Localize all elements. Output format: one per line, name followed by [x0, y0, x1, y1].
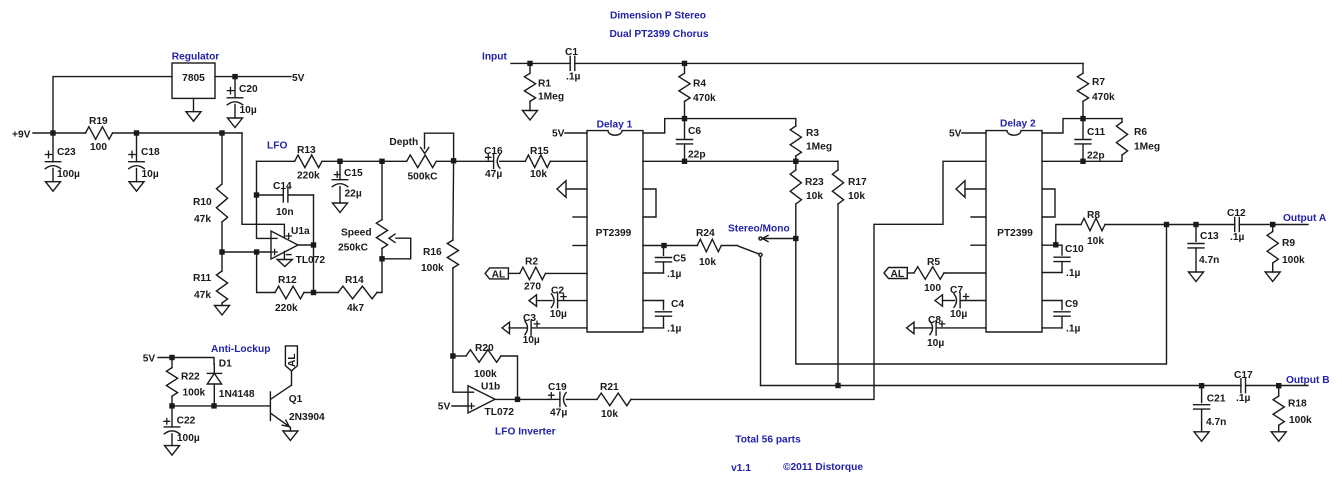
R14 label [345, 275, 364, 286]
R3 value 1Meg [806, 142, 832, 153]
svg-text:TL072: TL072 [296, 255, 326, 266]
node pin14/R8 node (junction) [1053, 242, 1058, 247]
svg-text:10k: 10k [601, 409, 618, 420]
svg-text:R6: R6 [1134, 127, 1147, 138]
svg-text:R19: R19 [89, 116, 108, 127]
wire AL to R5 [907, 272, 914, 274]
R12 value 220k [275, 303, 298, 314]
wire R3 bottom lead [795, 156, 797, 161]
C17 label [1234, 370, 1253, 381]
IC Delay2 PT2399 body [986, 131, 1042, 332]
svg-text:270: 270 [524, 282, 541, 293]
LFO arrow (C3) [502, 322, 510, 334]
ground regulator ground [186, 98, 201, 121]
wire R7 top lead [1082, 63, 1084, 73]
svg-text:470k: 470k [693, 93, 716, 104]
wire Speed bottom lead [381, 248, 383, 258]
svg-text:10µ: 10µ [240, 105, 257, 116]
C21 value 4.7n [1206, 417, 1226, 428]
node +9V/C23 (junction) [50, 130, 55, 135]
Delay2 part PT2399 [997, 228, 1033, 239]
ground R18 ground [1271, 432, 1286, 442]
LFO Inverter section label [495, 426, 556, 437]
resistor R17 (10k) [832, 170, 843, 204]
svg-text:100µ: 100µ [57, 169, 80, 180]
resistor R3 (1Meg) [790, 126, 801, 156]
node R23/switch node (junction) [793, 236, 798, 241]
node C21 node (junction) [1199, 383, 1204, 388]
node R22/C22 node (junction) [169, 403, 174, 408]
wire Delay2 pin16 to fb node [1042, 119, 1083, 133]
wire R15 out to Delay1 pin2 [550, 160, 587, 162]
Anti-Lockup section label [211, 344, 270, 355]
svg-text:.1µ: .1µ [1236, 393, 1250, 404]
R9 value 100k [1282, 255, 1305, 266]
svg-text:C13: C13 [1200, 231, 1219, 242]
C8 value 10u [927, 338, 944, 349]
wire U1a output [298, 244, 314, 246]
svg-text:10k: 10k [1087, 236, 1104, 247]
regulator U3 7805 [172, 63, 215, 98]
C21 label [1207, 393, 1226, 404]
wire 5V to Delay2 pin1 [962, 132, 986, 134]
transistor Q1 (2N3904) [270, 385, 291, 431]
node R17/outputB bus (junction) [835, 383, 840, 388]
svg-text:C2: C2 [551, 286, 564, 297]
svg-text:10µ: 10µ [523, 335, 540, 346]
wire regulator output 5V [215, 76, 291, 78]
svg-text:C7: C7 [950, 285, 963, 296]
svg-text:C23: C23 [57, 147, 76, 158]
C7 value 10u [950, 309, 967, 320]
C4 label [671, 299, 684, 310]
R24 value 10k [699, 257, 716, 268]
wire R16 bottom lead / to U1b [453, 268, 468, 392]
wire 9V to U1a V+ [242, 133, 284, 237]
node 5V label (U1b) [438, 402, 451, 413]
C15 value 22u [345, 188, 362, 199]
svg-text:R18: R18 [1288, 399, 1307, 410]
C3 label [523, 313, 536, 324]
title Dimension P Stereo [610, 11, 706, 22]
R7 label [1092, 77, 1105, 88]
svg-text:R8: R8 [1087, 210, 1100, 221]
svg-text:1Meg: 1Meg [538, 92, 564, 103]
svg-text:R12: R12 [278, 275, 297, 286]
resistor R4 (470k) [679, 73, 690, 101]
C2 value 10u [550, 309, 567, 320]
LFO arrow (C7) [935, 295, 943, 307]
wire R7 bottom lead [1082, 101, 1084, 118]
capacitor C3 (10u) [509, 321, 587, 335]
C22 value 100u [177, 433, 200, 444]
wire output A stub [1273, 224, 1308, 226]
C18 value 10u [142, 169, 159, 180]
R13 value 220k [297, 171, 320, 182]
svg-text:1N4148: 1N4148 [219, 389, 255, 400]
wire Delay1 pin16 to C6 top [643, 119, 685, 133]
resistor R16 (100k) [447, 240, 458, 268]
svg-text:10µ: 10µ [550, 309, 567, 320]
resistor R23 (10k) [790, 170, 801, 204]
svg-text:Output B: Output B [1286, 375, 1330, 386]
wire input line right [575, 62, 1083, 64]
svg-text:.1µ: .1µ [1230, 232, 1244, 243]
wire mono bus (R23 to R8 node) [796, 225, 1167, 365]
C6 label [688, 126, 701, 137]
node R7/C11 node (junction) [1080, 116, 1085, 121]
svg-text:100k: 100k [421, 263, 444, 274]
svg-text:C1: C1 [565, 47, 578, 58]
svg-text:U1b: U1b [481, 382, 500, 393]
C5 value .1u [667, 269, 681, 280]
svg-text:Speed: Speed [341, 228, 372, 239]
svg-text:5V: 5V [143, 353, 156, 364]
Regulator section label [172, 52, 220, 63]
capacitor C9 (.1u) [1042, 301, 1070, 328]
svg-text:R22: R22 [181, 371, 200, 382]
wire base wire [172, 405, 270, 407]
node pin14/C5 node (junction) [661, 243, 666, 248]
svg-text:C15: C15 [344, 168, 363, 179]
svg-text:100k: 100k [183, 388, 206, 399]
capacitor C12 (.1u) [1196, 218, 1273, 232]
svg-text:C18: C18 [141, 147, 160, 158]
node 5V/C20 (junction) [232, 74, 237, 79]
R20 label [475, 343, 494, 354]
svg-text:U1a: U1a [291, 226, 310, 237]
svg-text:R16: R16 [423, 247, 442, 258]
R7 value 470k [1092, 92, 1115, 103]
svg-text:10µ: 10µ [142, 169, 159, 180]
svg-text:100k: 100k [1289, 415, 1312, 426]
svg-text:100µ: 100µ [177, 433, 200, 444]
C12 label [1227, 208, 1246, 219]
svg-text:10k: 10k [530, 169, 547, 180]
R22 value 100k [183, 388, 206, 399]
svg-text:22p: 22p [688, 150, 706, 161]
ground C15 ground [333, 203, 348, 213]
svg-text:10µ: 10µ [927, 338, 944, 349]
wire R16 top lead [452, 161, 455, 240]
resistor R22 (100k) [166, 368, 177, 397]
svg-text:4.7n: 4.7n [1206, 417, 1226, 428]
svg-text:5V: 5V [552, 129, 565, 140]
svg-text:R21: R21 [600, 382, 619, 393]
wire R18 bottom lead [1278, 425, 1280, 432]
svg-text:5V: 5V [438, 402, 451, 413]
svg-text:R11: R11 [193, 273, 211, 284]
resistor R2 (270) [520, 267, 546, 280]
node Depth wiper node (junction) [451, 158, 456, 163]
potentiometer Depth (500kC) [407, 133, 454, 167]
wire Depth left lead [382, 160, 407, 162]
wire AL flag to collector [291, 371, 293, 385]
C10 value .1u [1066, 268, 1080, 279]
node C15 node (junction) [337, 159, 342, 164]
IC Delay1 PT2399 body [587, 131, 643, 332]
R18 value 100k [1289, 415, 1312, 426]
wire R12 to R14 [304, 292, 338, 294]
C1 label [565, 47, 578, 58]
C5 label [673, 254, 686, 265]
R5 value 100 [924, 283, 941, 294]
wire R6 top lead [1121, 119, 1123, 122]
svg-text:R13: R13 [297, 145, 316, 156]
wire R2 to Delay1 pin6 [546, 272, 588, 274]
note (c)2011 Distorque [783, 462, 863, 473]
diode D1 (1N4148) [207, 364, 221, 406]
node output B node (junction) [1276, 383, 1281, 388]
svg-text:D1: D1 [219, 358, 232, 369]
wire R1 top lead [529, 63, 531, 73]
R10 label [193, 197, 212, 208]
net flag AL (R2) [485, 268, 508, 281]
R3 label [806, 128, 819, 139]
C11 label [1087, 127, 1105, 138]
svg-text:LFO Inverter: LFO Inverter [495, 426, 556, 437]
wire U1a output node down to R12/R14 [313, 245, 315, 293]
wire +9V to regulator input [53, 77, 172, 133]
svg-text:AL: AL [287, 353, 298, 367]
capacitor C14 (10n) [257, 188, 314, 202]
wire Depth right lead [436, 160, 453, 162]
C16 label [484, 146, 503, 157]
node +9V label [12, 130, 31, 141]
wire 5V to U1b + input [452, 405, 468, 407]
Depth label [389, 137, 418, 148]
svg-text:R15: R15 [530, 146, 549, 157]
C13 label [1200, 231, 1219, 242]
wire Delay1 pin14 out [643, 245, 697, 247]
node C6 bottom (junction) [682, 159, 687, 164]
switch Stereo/Mono [739, 236, 796, 257]
wire +9V rail left [33, 132, 86, 134]
C9 label [1065, 299, 1078, 310]
ground C20 ground [228, 118, 243, 128]
wire divider to U1a + input [222, 251, 271, 253]
capacitor C19 (47u) [549, 392, 597, 406]
resistor R6 (1Meg) [1116, 122, 1127, 155]
op-amp U1a [271, 231, 298, 259]
resistor R11 (47k) [216, 271, 227, 303]
R4 label [693, 79, 706, 90]
wire C14 to U1a output [313, 195, 315, 245]
svg-text:AL: AL [891, 269, 905, 280]
C18 label [141, 147, 160, 158]
node input/R4 (junction) [682, 61, 687, 66]
resistor R20 (100k) [466, 350, 501, 363]
node 9V/R10 divider top (junction) [219, 130, 224, 135]
svg-text:100: 100 [90, 142, 107, 153]
svg-text:C21: C21 [1207, 393, 1226, 404]
wire R17 bottom lead [837, 204, 839, 386]
wire R10 bottom lead [221, 222, 223, 252]
resistor R5 (100) [914, 267, 944, 280]
LFO arrow (C8) [907, 322, 915, 334]
R15 label [530, 146, 549, 157]
svg-text:C11: C11 [1087, 127, 1105, 138]
wire 5V to Delay1 pin1 [565, 132, 587, 134]
C1 value .1u [566, 72, 580, 83]
node U1b output node (junction) [515, 397, 520, 402]
wire R9 bottom lead [1272, 263, 1274, 272]
capacitor C11 (22p) [1075, 119, 1091, 162]
resistor R24 (10k) [697, 239, 721, 252]
svg-text:R17: R17 [848, 177, 867, 188]
wire R24 to switch [721, 245, 737, 247]
node output A node (junction) [1270, 222, 1275, 227]
svg-text:100k: 100k [1282, 255, 1305, 266]
capacitor C20 (10u) [227, 77, 243, 118]
svg-text:47k: 47k [194, 214, 211, 225]
wire R17 top lead [837, 161, 839, 170]
svg-text:220k: 220k [297, 171, 320, 182]
wire 5V anti-lockup rail [158, 358, 214, 365]
wire C15 to Depth pot [340, 160, 382, 162]
R13 label [297, 145, 316, 156]
U1a V- ground [277, 260, 292, 267]
R20 value 100k [474, 369, 497, 380]
wire Depth node down to Speed [381, 161, 383, 219]
C15 label [344, 168, 363, 179]
svg-text:220k: 220k [275, 303, 298, 314]
U1b part TL072 [485, 407, 515, 418]
svg-text:R5: R5 [927, 257, 940, 268]
svg-text:100k: 100k [474, 369, 497, 380]
wire R20 right to U1b output [501, 356, 518, 399]
svg-text:10n: 10n [276, 207, 294, 218]
node R12/R14/fb node (junction) [311, 290, 316, 295]
C19 value 47u [550, 408, 567, 419]
resistor R7 (470k) [1077, 73, 1088, 101]
capacitor C5 (.1u) [643, 246, 672, 274]
ground C22 ground [165, 446, 180, 456]
resistor R10 (47k) [216, 184, 227, 222]
svg-text:R14: R14 [345, 275, 364, 286]
svg-text:22µ: 22µ [345, 188, 362, 199]
svg-text:Input: Input [482, 52, 507, 63]
capacitor C6 (22p) [677, 119, 693, 162]
ground R9 ground [1265, 272, 1280, 282]
R24 label [696, 228, 715, 239]
wire fb bus to R6 [1083, 118, 1122, 120]
svg-text:R1: R1 [538, 79, 551, 90]
node node A / C14 (junction) [254, 192, 259, 197]
ground Q1 emitter ground [283, 431, 298, 441]
wire U1a + node to R12 [257, 252, 275, 293]
resistor R15 (10k) [525, 155, 550, 168]
svg-text:C14: C14 [273, 181, 292, 192]
R14 value 4k7 [347, 303, 364, 314]
ground C21 ground [1194, 432, 1209, 442]
wire node A vertical (R13/C14/U1a -) [257, 161, 272, 238]
C6 value 22p [688, 150, 706, 161]
Speed label [341, 228, 372, 239]
C14 value 10n [276, 207, 294, 218]
C10 label [1065, 244, 1084, 255]
svg-text:10k: 10k [848, 191, 865, 202]
R12 label [278, 275, 297, 286]
ground R1 ground [523, 111, 538, 121]
wire R4 top lead [684, 63, 686, 73]
wire R23 top lead [795, 161, 797, 170]
C19 label [548, 382, 567, 393]
svg-text:Stereo/Mono: Stereo/Mono [728, 224, 790, 235]
svg-text:Output A: Output A [1283, 213, 1327, 224]
svg-text:Regulator: Regulator [172, 52, 220, 63]
node C11 bottom (junction) [1080, 159, 1085, 164]
resistor R13 (220k) [295, 155, 322, 168]
svg-text:.1µ: .1µ [667, 269, 681, 280]
svg-text:©2011 Distorque: ©2011 Distorque [783, 462, 863, 473]
wire +9V rail right [113, 132, 243, 134]
svg-text:1Meg: 1Meg [806, 142, 832, 153]
svg-text:100: 100 [924, 283, 941, 294]
ground C18 ground [129, 182, 144, 192]
net flag AL (anti-lockup) [285, 346, 298, 371]
Output A label [1283, 213, 1327, 224]
wire R13 right lead [322, 160, 340, 162]
capacitor C23 (100u) [45, 133, 61, 182]
wire Delay2 pin14 out [1042, 244, 1062, 246]
svg-text:.1µ: .1µ [1066, 324, 1080, 335]
R10 value 47k [194, 214, 211, 225]
svg-text:C3: C3 [523, 313, 536, 324]
wire output B bus right [1246, 385, 1308, 387]
wire fb bus to R3 [685, 118, 796, 120]
node divider mid (junction) [219, 249, 224, 254]
wire R10 top lead [221, 133, 223, 184]
C16 value 47u [485, 169, 502, 180]
node 9V filt/C18 (junction) [134, 130, 139, 135]
wire R4 bottom lead [684, 101, 686, 118]
capacitor C8 (10u) [914, 321, 986, 335]
svg-text:R4: R4 [693, 79, 706, 90]
R16 value 100k [421, 263, 444, 274]
wire input line left [511, 62, 570, 64]
node C13 node (junction) [1193, 222, 1198, 227]
svg-text:10k: 10k [699, 257, 716, 268]
Delay2 loop pins 9-10 [1042, 189, 1055, 217]
C17 value .1u [1236, 393, 1250, 404]
capacitor C13 (4.7n) [1188, 225, 1204, 273]
wire R18 top lead [1278, 386, 1280, 396]
R23 value 10k [806, 191, 823, 202]
R2 value 270 [524, 282, 541, 293]
Depth value 500kC [408, 171, 439, 182]
svg-text:C19: C19 [548, 382, 567, 393]
wire U1b output [495, 398, 549, 400]
resistor R12 (220k) [275, 286, 304, 299]
R17 value 10k [848, 191, 865, 202]
Stereo/Mono label [728, 224, 790, 235]
svg-text:Q1: Q1 [289, 394, 303, 405]
wire R9 top lead [1272, 225, 1274, 232]
wire R8 tap [1056, 225, 1081, 245]
svg-text:470k: 470k [1092, 92, 1115, 103]
R9 label [1282, 238, 1295, 249]
svg-text:C5: C5 [673, 254, 686, 265]
node 5V/R22 (junction) [169, 355, 174, 360]
svg-text:C20: C20 [239, 84, 258, 95]
svg-text:C8: C8 [928, 315, 941, 326]
potentiometer Speed (250kC) [376, 220, 410, 259]
svg-text:250kC: 250kC [338, 243, 369, 254]
C22 label [177, 416, 196, 427]
wire R11 bottom lead [221, 303, 223, 306]
svg-text:500kC: 500kC [408, 171, 439, 182]
